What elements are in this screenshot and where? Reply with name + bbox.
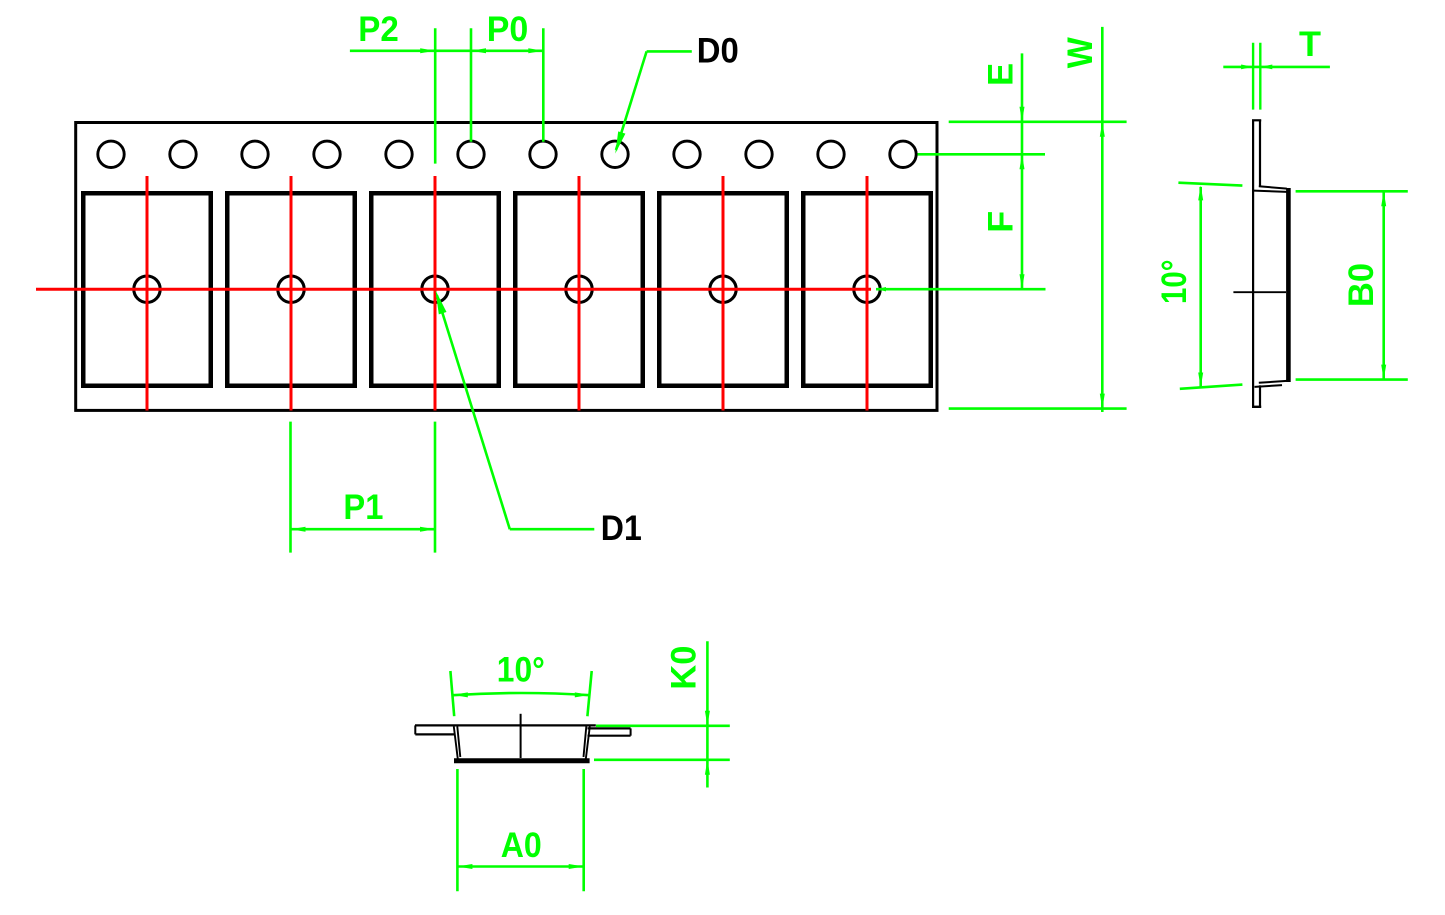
svg-text:W: W [1061, 37, 1100, 68]
svg-text:T: T [1299, 25, 1321, 64]
svg-text:K0: K0 [664, 646, 703, 690]
svg-text:10°: 10° [1155, 259, 1194, 304]
svg-text:E: E [981, 63, 1020, 86]
svg-text:10°: 10° [497, 651, 545, 690]
svg-text:A0: A0 [501, 826, 542, 865]
svg-text:P2: P2 [358, 10, 399, 49]
svg-text:F: F [982, 211, 1021, 233]
svg-text:P1: P1 [343, 488, 383, 527]
svg-text:D1: D1 [601, 509, 642, 548]
svg-text:D0: D0 [697, 32, 739, 71]
svg-text:P0: P0 [487, 10, 529, 49]
svg-text:B0: B0 [1342, 263, 1381, 307]
